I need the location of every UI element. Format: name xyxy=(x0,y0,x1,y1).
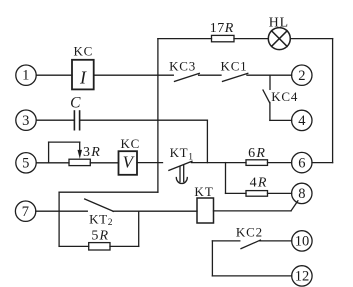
svg-text:KT: KT xyxy=(194,184,214,199)
svg-text:7: 7 xyxy=(22,204,29,220)
svg-text:KC1: KC1 xyxy=(221,58,248,73)
svg-text:4R: 4R xyxy=(250,175,268,190)
svg-text:8: 8 xyxy=(298,186,305,202)
svg-text:HL: HL xyxy=(269,14,289,29)
svg-text:6: 6 xyxy=(298,155,305,171)
svg-text:3: 3 xyxy=(22,113,29,129)
svg-text:17R: 17R xyxy=(210,21,234,36)
svg-text:5: 5 xyxy=(22,156,29,172)
svg-text:KC: KC xyxy=(120,136,140,151)
svg-text:KC4: KC4 xyxy=(271,89,298,104)
svg-text:KC3: KC3 xyxy=(169,59,196,74)
svg-text:4: 4 xyxy=(298,113,306,129)
svg-text:12: 12 xyxy=(295,269,310,285)
svg-text:3R: 3R xyxy=(83,145,101,160)
svg-text:2: 2 xyxy=(298,68,305,84)
svg-text:10: 10 xyxy=(295,234,310,250)
svg-text:KC: KC xyxy=(73,44,93,59)
svg-text:5R: 5R xyxy=(91,229,109,244)
svg-text:C: C xyxy=(70,94,81,111)
svg-text:1: 1 xyxy=(22,67,29,83)
svg-text:KC2: KC2 xyxy=(236,224,263,239)
svg-text:I: I xyxy=(79,67,87,87)
svg-text:6R: 6R xyxy=(248,146,266,161)
